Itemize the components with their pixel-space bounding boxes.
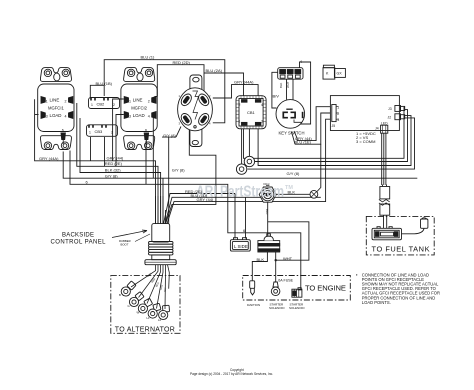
svg-text:BLU: BLU xyxy=(155,282,160,288)
svg-text:CB3: CB3 xyxy=(95,129,104,134)
svg-text:K: K xyxy=(326,72,329,76)
svg-text:Page design (c) 2004 - 2017 by: Page design (c) 2004 - 2017 by ARI Netwo… xyxy=(190,372,273,376)
svg-text:CONTROL PANEL: CONTROL PANEL xyxy=(51,240,107,246)
wire stack bottom right to fuse xyxy=(275,252,277,282)
svg-text:4: 4 xyxy=(261,103,263,107)
wire CB1 pin3b to ring2 xyxy=(241,129,243,164)
svg-text:BLU (1E): BLU (1E) xyxy=(295,140,312,145)
svg-text:1: 1 xyxy=(89,130,91,134)
svg-text:GRY (44A): GRY (44A) xyxy=(39,156,59,161)
12V jack xyxy=(259,185,276,202)
engine box (dash-dot) xyxy=(243,276,351,301)
svg-text:J5: J5 xyxy=(332,124,336,128)
svg-text:G/Y: G/Y xyxy=(164,287,168,292)
svg-text:BLU (1): BLU (1) xyxy=(141,54,155,59)
svg-text:BLK: BLK xyxy=(257,257,265,262)
svg-text:KEY SWITCH: KEY SWITCH xyxy=(279,131,305,136)
ring terminal 2 xyxy=(236,164,246,174)
svg-text:L SIDE: L SIDE xyxy=(234,244,248,249)
wire key switch BLU to board pin2 xyxy=(292,113,331,144)
svg-text:BLU: BLU xyxy=(265,209,269,214)
wire boot right feed BLU(1D) xyxy=(165,197,321,238)
wire D G/Y(8) long xyxy=(63,152,417,179)
svg-text:4: 4 xyxy=(300,59,303,64)
ring terminal alt B xyxy=(121,281,136,296)
GFCI receptacle MGFCI2 body xyxy=(121,68,157,150)
wire lamp to BLU node xyxy=(317,144,321,191)
svg-text:2: 2 xyxy=(209,94,211,98)
backside panel arrow xyxy=(112,230,147,238)
svg-text:3: 3 xyxy=(129,114,131,118)
fuse ring terminal xyxy=(271,282,280,296)
wire CB1 pin1 down to J3 loop h1 xyxy=(244,107,405,158)
wire CB1 pin1b to ring1 xyxy=(248,129,250,156)
connector K GX xyxy=(323,65,345,79)
svg-text:B: B xyxy=(119,293,121,297)
svg-text:LED: LED xyxy=(381,122,388,126)
wire boot right feed RED(2E) xyxy=(164,194,236,239)
svg-text:WHT: WHT xyxy=(286,81,290,88)
svg-text:GRY (44A): GRY (44A) xyxy=(234,80,254,85)
svg-text:B/V: B/V xyxy=(273,94,280,99)
wire GFCI2 pin4 drop xyxy=(152,118,154,178)
svg-text:LOAD: LOAD xyxy=(133,113,145,118)
ring terminal alt 5 xyxy=(159,305,170,319)
svg-text:RED (2E): RED (2E) xyxy=(105,161,123,166)
wire B RED(2E) xyxy=(77,103,158,224)
wire boot bundle verticals xyxy=(156,196,166,224)
ring terminal alt 2 xyxy=(129,292,144,307)
wire key connector drops to switch xyxy=(286,79,288,100)
svg-text:MGFCI2: MGFCI2 xyxy=(131,106,147,111)
svg-text:BLU (1B): BLU (1B) xyxy=(96,81,113,86)
svg-text:1: 1 xyxy=(129,99,131,103)
rubber boot leader xyxy=(135,234,150,242)
svg-text:3: 3 xyxy=(337,118,339,122)
svg-text:GRY (44): GRY (44) xyxy=(107,155,124,160)
wire D boot tap xyxy=(162,178,164,224)
ring terminal alt 4 xyxy=(148,303,161,318)
starter solenoid connector block xyxy=(292,288,302,298)
twist-lock receptacle xyxy=(178,75,213,147)
svg-text:LOAD POINTS.: LOAD POINTS. xyxy=(362,300,391,305)
svg-text:DCJ: DCJ xyxy=(264,182,270,186)
fuel sender xyxy=(372,227,402,240)
svg-text:BACKSIDE: BACKSIDE xyxy=(62,233,94,239)
svg-text:G/Y (8): G/Y (8) xyxy=(287,171,300,176)
fuel tank box (dash-dot) xyxy=(366,216,434,255)
lamp xyxy=(310,190,318,198)
svg-text:4: 4 xyxy=(148,114,150,118)
fuel wire connector sleeve with break xyxy=(379,185,390,216)
wire CB1 pin3 down to loop h3 xyxy=(258,116,411,166)
wire W1 loop jack-stack xyxy=(268,222,309,260)
wire ring1 to J2 loop h2 xyxy=(255,110,408,162)
wire ring2 to loop h4 xyxy=(248,118,415,169)
svg-text:BLK (32): BLK (32) xyxy=(105,168,121,173)
svg-text:1: 1 xyxy=(239,120,241,124)
wire BLU (1) top run xyxy=(104,60,225,123)
wire BLU (2A) xyxy=(204,73,244,96)
junction dot xyxy=(275,259,277,261)
wire key connector pin4 xyxy=(300,62,311,124)
wire boot right feed GRY(44) from board pin3 xyxy=(167,119,330,224)
svg-text:G/Y (8): G/Y (8) xyxy=(163,133,176,138)
control board xyxy=(330,96,404,134)
svg-text:6A FUSE: 6A FUSE xyxy=(278,279,293,283)
svg-text:2: 2 xyxy=(239,103,241,107)
svg-text:TO FUEL TANK: TO FUEL TANK xyxy=(372,245,430,254)
key switch xyxy=(276,100,305,129)
svg-text:SOLENOID: SOLENOID xyxy=(289,306,305,310)
GFCI receptacle MGFCI1 body xyxy=(38,68,74,150)
svg-text:RED (2D): RED (2D) xyxy=(173,60,191,65)
svg-text:MGFCI1: MGFCI1 xyxy=(48,106,64,111)
svg-text:GX: GX xyxy=(337,72,343,76)
wire GFCI2 pin6 drop xyxy=(145,141,147,185)
connector CB2 xyxy=(89,98,120,109)
svg-text:2: 2 xyxy=(337,112,339,116)
wire CB3 pin drops xyxy=(90,137,92,161)
svg-text:6: 6 xyxy=(62,129,64,133)
wire receptacle left G/Y xyxy=(162,127,181,224)
svg-text:G: G xyxy=(128,304,130,308)
starter solenoid stack xyxy=(258,234,280,252)
wire GFCI2 pin3 drop xyxy=(116,115,124,167)
svg-text:2: 2 xyxy=(113,103,115,107)
fuel float xyxy=(421,218,428,229)
wire key connector to switch left B/V xyxy=(272,72,278,108)
svg-text:•: • xyxy=(356,272,358,277)
svg-text:1: 1 xyxy=(46,99,48,103)
svg-text:6: 6 xyxy=(145,129,147,133)
rubber boot xyxy=(145,224,176,265)
connector CB3 xyxy=(87,125,118,137)
svg-text:LINE: LINE xyxy=(50,98,60,103)
svg-text:4: 4 xyxy=(209,122,211,126)
wire E 6 run xyxy=(70,151,301,290)
svg-text:1: 1 xyxy=(337,106,339,110)
svg-text:CB1: CB1 xyxy=(247,110,256,115)
svg-text:W: W xyxy=(137,311,140,315)
svg-text:4: 4 xyxy=(65,114,67,118)
svg-text:J4: J4 xyxy=(375,127,379,131)
wire A GRY(44) long xyxy=(35,99,156,224)
wire pin3 stub GFCI1 xyxy=(35,114,39,116)
svg-text:BLU (2A): BLU (2A) xyxy=(206,68,223,73)
ignition bullet terminal xyxy=(250,281,255,295)
svg-text:3: 3 xyxy=(261,120,263,124)
key switch connector xyxy=(278,68,303,80)
wire GRY (44A) to CB1 xyxy=(213,85,258,98)
svg-text:BLK: BLK xyxy=(279,83,283,88)
svg-text:1: 1 xyxy=(91,103,93,107)
wire receptacle strap bottom to boot xyxy=(166,125,216,224)
svg-text:IGNITION: IGNITION xyxy=(247,303,260,307)
wire J4 drops to fuel connector xyxy=(381,133,383,185)
svg-text:GRY (44): GRY (44) xyxy=(197,197,214,202)
svg-text:2: 2 xyxy=(111,130,113,134)
svg-text:G/Y (8): G/Y (8) xyxy=(172,168,185,173)
svg-text:3 = COMM: 3 = COMM xyxy=(356,139,375,144)
wire fuel float arm xyxy=(402,229,425,234)
ring terminal 1 xyxy=(244,156,254,166)
wire jack to lamp BLK xyxy=(274,193,310,195)
svg-text:SOLENOID: SOLENOID xyxy=(269,306,285,310)
alternator wires fan xyxy=(131,265,169,309)
svg-text:LOAD: LOAD xyxy=(50,113,62,118)
svg-text:L2: L2 xyxy=(158,318,162,322)
svg-text:BOOT: BOOT xyxy=(121,242,129,246)
alternator box (dash-dot) xyxy=(111,276,180,334)
wire key switch GRY(44) to board pin1 xyxy=(294,107,330,141)
svg-text:2: 2 xyxy=(65,99,67,103)
ring terminal alt 3 xyxy=(138,298,152,313)
wire stack bottom left BLK to ignition xyxy=(252,252,267,281)
svg-text:6: 6 xyxy=(86,179,89,184)
wire RED (2D) xyxy=(155,65,205,97)
svg-text:L1: L1 xyxy=(147,316,151,320)
svg-text:J2: J2 xyxy=(388,115,392,119)
wire C BLK(32) xyxy=(80,118,161,224)
wire BLU (1B) CB2 xyxy=(90,85,104,98)
circuit breaker CB1 xyxy=(236,96,266,129)
svg-text:WHT: WHT xyxy=(283,256,293,261)
svg-text:CB2: CB2 xyxy=(97,102,106,107)
battery box L SIDE xyxy=(230,238,250,251)
svg-text:TO ENGINE: TO ENGINE xyxy=(305,283,346,292)
svg-text:3: 3 xyxy=(46,114,48,118)
svg-text:G/Y (8): G/Y (8) xyxy=(105,173,118,178)
svg-text:2: 2 xyxy=(148,99,150,103)
svg-text:J3: J3 xyxy=(388,107,392,111)
wire fuel connector to sender xyxy=(383,215,385,228)
svg-text:BLK: BLK xyxy=(288,190,296,195)
wire jack down to solenoid dome xyxy=(267,201,269,236)
svg-text:TO ALTERNATOR: TO ALTERNATOR xyxy=(115,327,175,334)
note block xyxy=(356,272,440,305)
svg-text:3: 3 xyxy=(179,122,181,126)
svg-text:LINE: LINE xyxy=(133,98,143,103)
wire GFCI2 pin1 drop xyxy=(113,99,124,161)
